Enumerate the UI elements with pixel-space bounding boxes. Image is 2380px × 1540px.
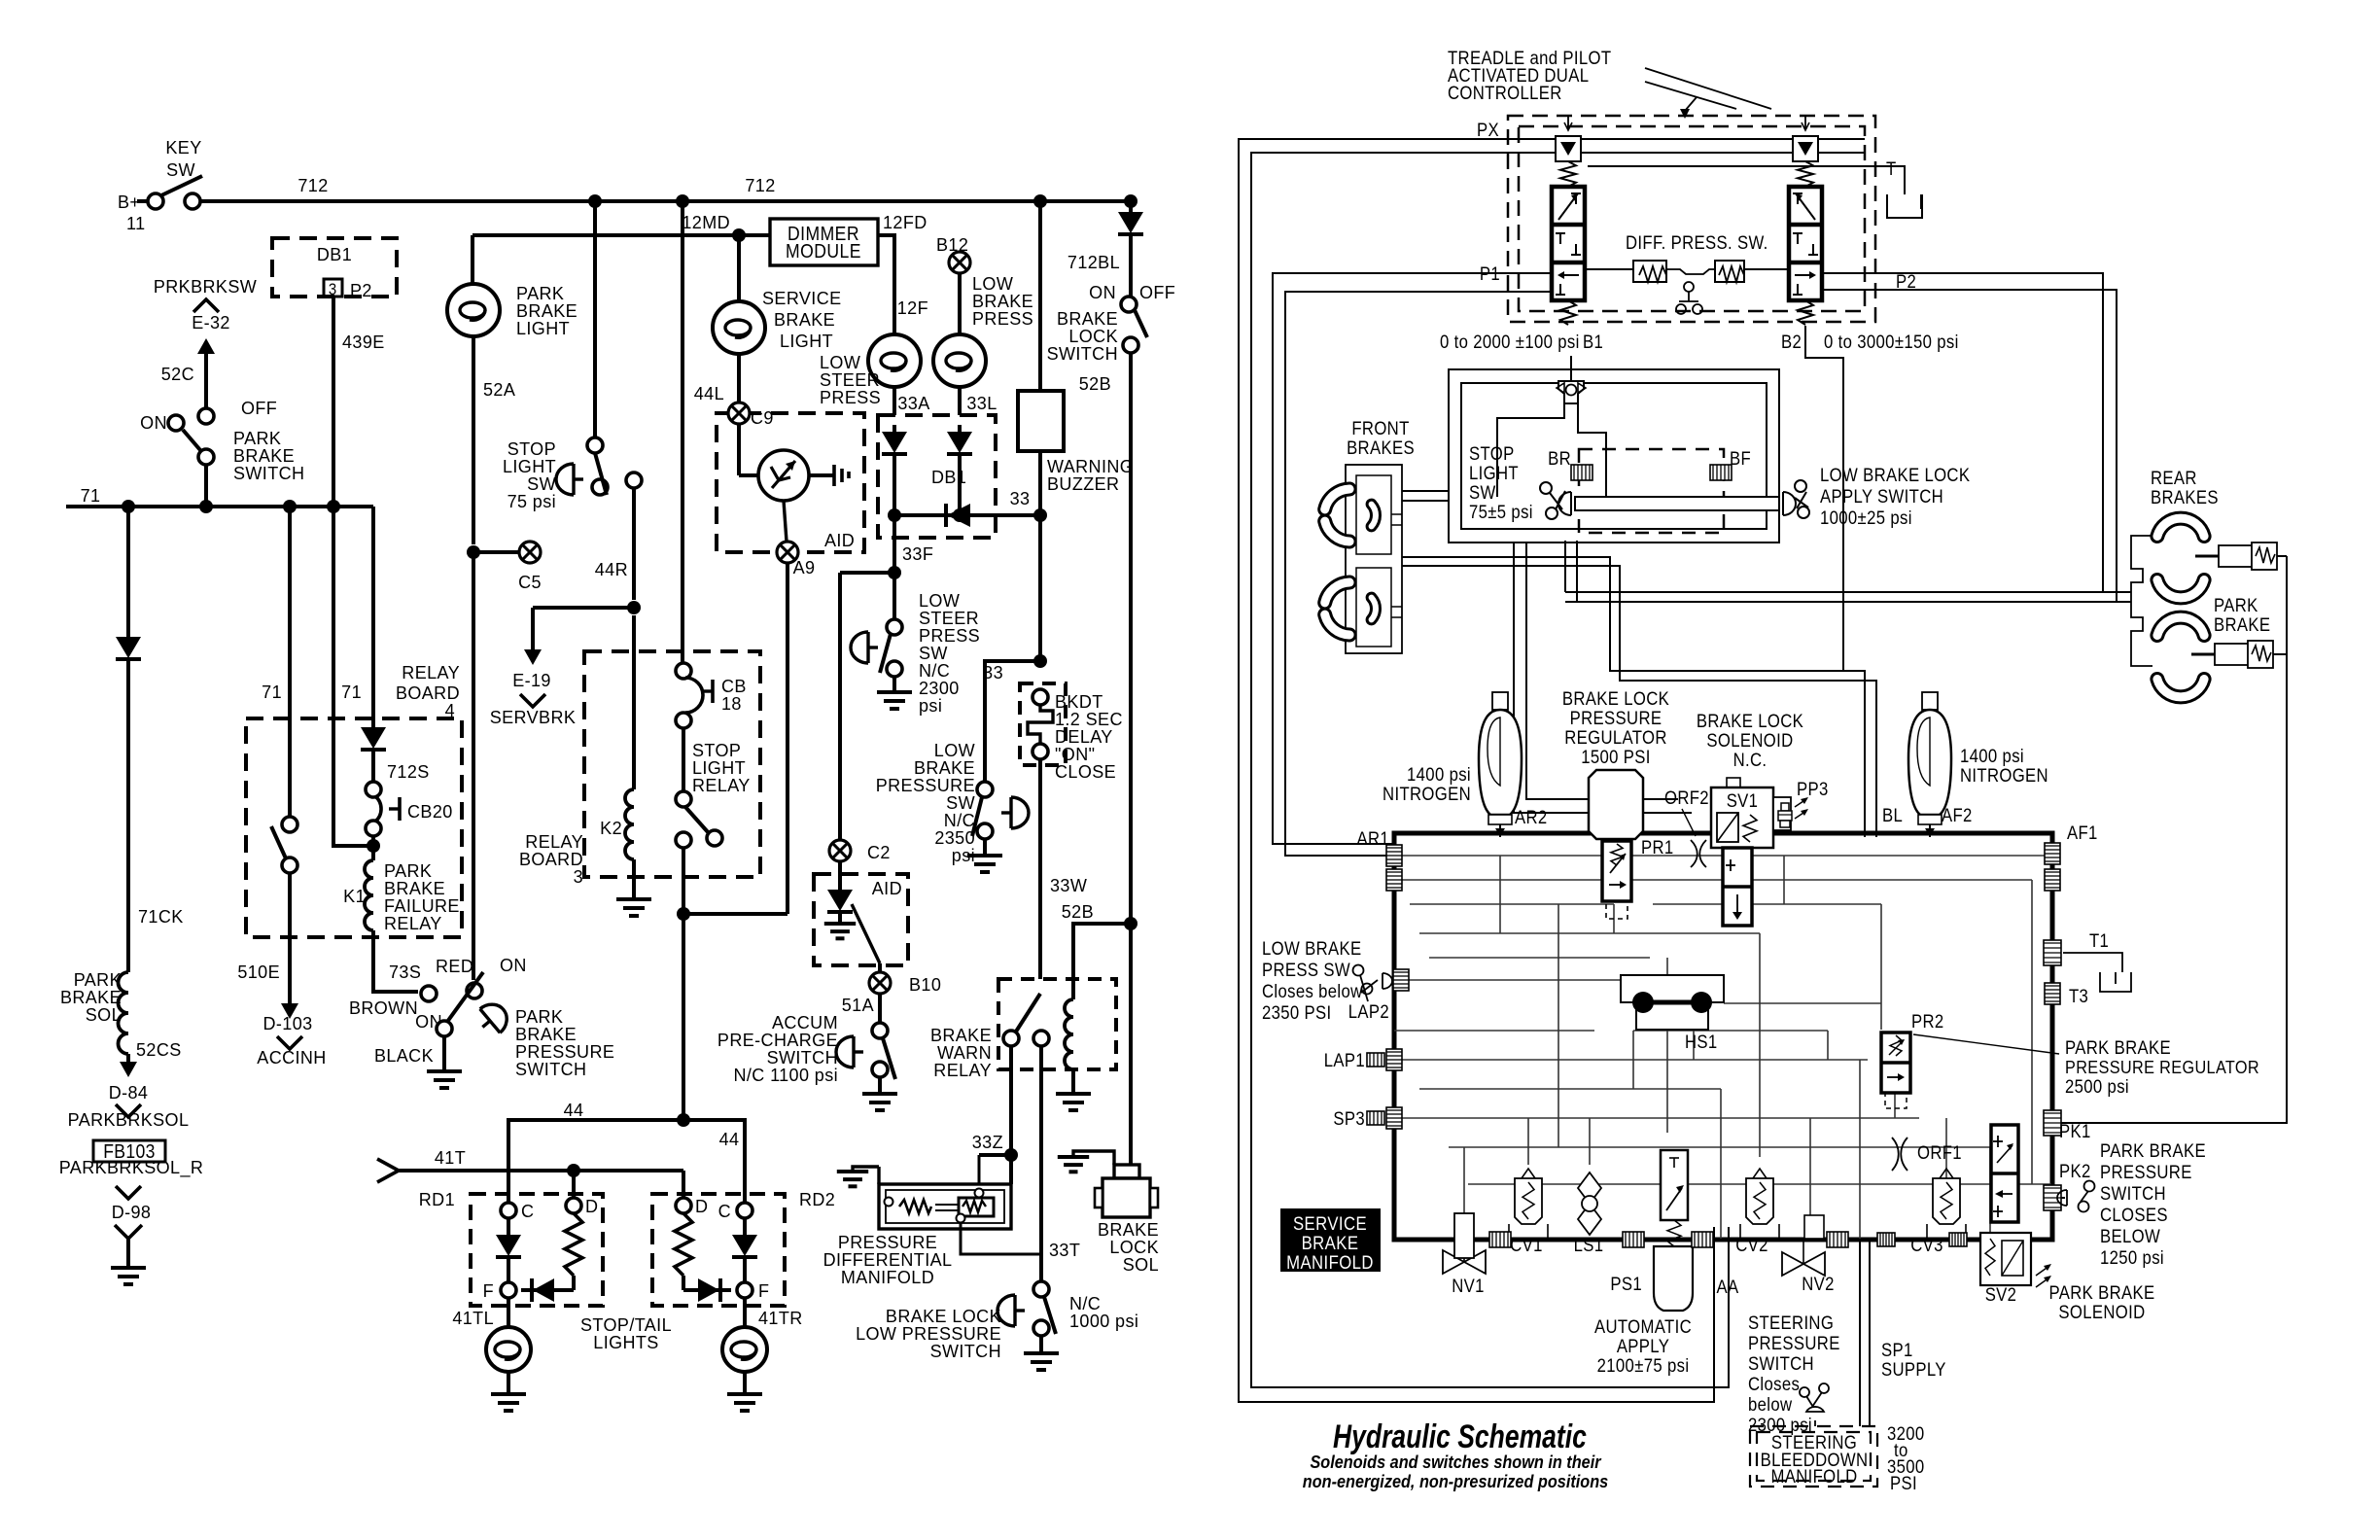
pressure switch PS1 [1654, 1246, 1693, 1311]
svg-text:SV2: SV2 [1985, 1284, 2017, 1305]
svg-text:N/C 1100 psi: N/C 1100 psi [733, 1066, 838, 1085]
svg-text:T: T [1886, 158, 1897, 179]
svg-text:33A: 33A [897, 394, 930, 413]
svg-text:PS1: PS1 [1610, 1274, 1642, 1294]
svg-text:T1: T1 [2089, 930, 2109, 951]
accum pre-charge switch [872, 1023, 888, 1038]
svg-text:RED: RED [436, 957, 473, 976]
svg-text:DIFF. PRESS. SW.: DIFF. PRESS. SW. [1626, 232, 1768, 253]
dimmer module [472, 233, 770, 237]
ground left of manifold [853, 1167, 879, 1172]
rear brake actuator (top) [2219, 545, 2259, 567]
svg-text:SP3: SP3 [1333, 1108, 1365, 1129]
svg-text:ON: ON [500, 956, 527, 975]
rear brakes park line from PK1 [2052, 654, 2287, 1123]
svg-text:BRAKES: BRAKES [1347, 437, 1415, 458]
svg-text:PRESS: PRESS [972, 309, 1033, 329]
svg-text:RD1: RD1 [419, 1190, 455, 1209]
svg-text:41T: 41T [435, 1148, 466, 1168]
svg-text:BR: BR [1548, 448, 1571, 469]
svg-text:71CK: 71CK [138, 907, 184, 927]
svg-text:MODULE: MODULE [786, 240, 861, 262]
svg-text:PRESSURE: PRESSURE [2100, 1162, 2192, 1182]
svg-text:PK1: PK1 [2059, 1121, 2091, 1141]
svg-text:PARKBRKSOL_R: PARKBRKSOL_R [59, 1158, 204, 1178]
svg-text:PRESSURE: PRESSURE [1748, 1333, 1840, 1353]
svg-text:33F: 33F [902, 544, 933, 564]
wire 73S [373, 930, 418, 992]
svg-text:SWITCH: SWITCH [1047, 344, 1118, 364]
svg-text:SV1: SV1 [1727, 790, 1759, 811]
svg-text:AA: AA [1717, 1277, 1739, 1297]
low brake lock apply switch contacts [1795, 480, 1806, 492]
diode 712BL [1129, 201, 1133, 212]
svg-text:LS1: LS1 [1574, 1235, 1604, 1255]
svg-text:BRAKE LOCK: BRAKE LOCK [1562, 688, 1669, 709]
svg-text:BELOW: BELOW [2100, 1226, 2160, 1246]
svg-text:AID: AID [824, 531, 855, 550]
svg-text:B1: B1 [1583, 332, 1603, 352]
svg-text:BUZZER: BUZZER [1047, 474, 1119, 494]
svg-text:D: D [695, 1197, 708, 1216]
svg-text:SW: SW [1469, 482, 1496, 503]
svg-text:1500 PSI: 1500 PSI [1581, 747, 1651, 767]
svg-text:73S: 73S [389, 962, 421, 982]
diode on park brake sol branch [126, 507, 130, 637]
svg-text:C9: C9 [751, 408, 774, 428]
hydraulic pipes: PX / T outer loop [1239, 139, 1714, 1402]
wire to D-84 [126, 1054, 130, 1062]
controller dashed box [1508, 116, 1875, 322]
needle valve NV1 [1443, 1237, 1486, 1274]
svg-text:712: 712 [297, 176, 328, 195]
svg-text:1000±25 psi: 1000±25 psi [1820, 507, 1912, 528]
indicator C2 + AID box 2 [829, 840, 851, 861]
svg-text:51A: 51A [842, 996, 875, 1015]
svg-text:PRKBRKSW: PRKBRKSW [154, 277, 258, 297]
svg-text:0 to 2000 ±100 psi: 0 to 2000 ±100 psi [1440, 332, 1580, 352]
svg-text:2350 PSI: 2350 PSI [1262, 1002, 1332, 1023]
park brake regulator valve (right) [1991, 1125, 2018, 1222]
svg-text:K1: K1 [343, 887, 366, 906]
svg-text:71: 71 [81, 486, 101, 506]
pressure differential manifold box [879, 1184, 1011, 1229]
lamp LOW STEER PRESS [868, 334, 921, 387]
svg-text:STOP: STOP [1469, 443, 1515, 464]
circuit breaker CB18 [681, 201, 684, 663]
wire 44R [626, 472, 642, 488]
brake warn relay [998, 979, 1116, 1069]
svg-text:75±5 psi: 75±5 psi [1469, 502, 1533, 522]
svg-text:CV2: CV2 [1735, 1235, 1768, 1255]
svg-text:RELAY: RELAY [402, 663, 460, 682]
svg-text:CB20: CB20 [407, 802, 453, 822]
svg-text:PARK: PARK [2214, 595, 2258, 615]
svg-text:52B: 52B [1062, 902, 1094, 922]
svg-text:PARK BRAKE: PARK BRAKE [2065, 1037, 2171, 1058]
svg-text:C: C [718, 1202, 731, 1221]
ground under K2 [616, 897, 651, 901]
diode 712S in relay board [371, 507, 375, 727]
svg-text:ACCINH: ACCINH [257, 1048, 326, 1067]
svg-text:CONTROLLER: CONTROLLER [1448, 83, 1562, 103]
svg-text:RELAY: RELAY [692, 776, 751, 795]
svg-text:ON: ON [1089, 283, 1116, 302]
svg-text:B10: B10 [909, 975, 941, 995]
svg-text:C2: C2 [867, 843, 891, 862]
svg-text:PR2: PR2 [1911, 1011, 1944, 1032]
svg-text:2100±75 psi: 2100±75 psi [1597, 1355, 1690, 1376]
T line to tank [1588, 166, 1905, 194]
svg-text:DB1: DB1 [931, 468, 966, 487]
tank symbol T [1887, 194, 1922, 218]
svg-text:1000 psi: 1000 psi [1069, 1312, 1138, 1331]
treadle valve right [1804, 116, 1806, 129]
svg-text:NITROGEN: NITROGEN [1960, 765, 2048, 786]
svg-text:B2: B2 [1781, 332, 1802, 352]
svg-text:PARKBRKSOL: PARKBRKSOL [68, 1110, 190, 1130]
treadle tube [1575, 497, 1779, 510]
svg-text:psi: psi [952, 846, 975, 865]
svg-text:E-19: E-19 [512, 671, 551, 690]
svg-text:D-103: D-103 [262, 1014, 312, 1033]
svg-text:SERVBRK: SERVBRK [490, 708, 577, 727]
svg-text:D: D [585, 1197, 598, 1216]
svg-text:AR2: AR2 [1515, 807, 1548, 827]
stop light relay contacts [682, 728, 685, 791]
controller internal pilot lines [1514, 138, 1865, 140]
svg-text:2500 psi: 2500 psi [2065, 1076, 2129, 1097]
svg-text:LOW BRAKE: LOW BRAKE [1262, 938, 1361, 959]
load sense LS1 [1578, 1172, 1601, 1235]
svg-text:712S: 712S [387, 762, 430, 782]
PR1 valve in manifold [1602, 841, 1631, 901]
svg-text:CLOSE: CLOSE [1055, 762, 1116, 782]
svg-text:BL: BL [1882, 805, 1903, 825]
park brake pressure switch (hydraulic) [2057, 1190, 2067, 1206]
svg-text:SERVICE: SERVICE [762, 289, 842, 308]
svg-text:PARK BRAKE: PARK BRAKE [2048, 1282, 2154, 1303]
SV1 valve in manifold [1723, 848, 1752, 926]
svg-text:LIGHT: LIGHT [516, 319, 570, 338]
ground (park brake sol return) [115, 1225, 142, 1239]
svg-text:OFF: OFF [1139, 283, 1175, 302]
relay board 3 box STOP LIGHT RELAY [584, 651, 760, 877]
svg-text:P2: P2 [1896, 271, 1916, 292]
52B junction feeding relay coil and brake lock sol [1124, 917, 1137, 930]
svg-text:CV3: CV3 [1910, 1235, 1943, 1255]
svg-text:71: 71 [262, 682, 282, 702]
svg-text:41TL: 41TL [452, 1309, 494, 1328]
lamp SERVICE BRAKE LIGHT [737, 235, 741, 301]
svg-text:33Z: 33Z [972, 1133, 1003, 1152]
svg-text:SWITCH: SWITCH [2100, 1183, 2166, 1204]
svg-text:12FD: 12FD [883, 213, 927, 232]
AID box (dimmer aid) [717, 413, 864, 552]
svg-text:F: F [483, 1281, 494, 1301]
lamp PARK BRAKE LIGHT [471, 235, 474, 284]
svg-text:A9: A9 [793, 558, 816, 577]
svg-text:75 psi: 75 psi [507, 492, 556, 511]
svg-text:LOW BRAKE LOCK: LOW BRAKE LOCK [1820, 465, 1970, 485]
svg-text:CLOSES: CLOSES [2100, 1205, 2168, 1225]
svg-text:52B: 52B [1079, 374, 1111, 394]
svg-text:12F: 12F [897, 298, 928, 318]
svg-text:LAP2: LAP2 [1348, 1001, 1389, 1022]
svg-text:LIGHT: LIGHT [780, 332, 833, 351]
svg-text:B+: B+ [118, 192, 140, 212]
svg-text:AR1: AR1 [1356, 828, 1389, 849]
svg-text:SWITCH: SWITCH [930, 1342, 1001, 1361]
svg-text:SWITCH: SWITCH [233, 464, 304, 483]
brake lock solenoid [1114, 1165, 1139, 1178]
wire 33Z + pressure differential manifold [1009, 1046, 1013, 1184]
svg-text:BRAKES: BRAKES [2151, 487, 2219, 507]
svg-text:BF: BF [1730, 448, 1751, 469]
pipes service line to BL port [1402, 557, 1865, 837]
svg-text:BRAKE LOCK: BRAKE LOCK [1697, 711, 1803, 731]
svg-text:HS1: HS1 [1685, 1032, 1718, 1052]
svg-text:D-98: D-98 [112, 1203, 152, 1222]
steering bleeddown manifold [1750, 1426, 1877, 1487]
svg-text:DB1: DB1 [317, 245, 352, 264]
svg-text:1250 psi: 1250 psi [2100, 1247, 2164, 1268]
circuit breaker CB20 [366, 782, 381, 797]
pipes P1 loop to manifold [1273, 273, 1554, 844]
svg-text:CV1: CV1 [1510, 1235, 1543, 1255]
svg-text:LIGHTS: LIGHTS [593, 1333, 658, 1352]
svg-text:PP3: PP3 [1797, 779, 1829, 799]
svg-text:NITROGEN: NITROGEN [1382, 784, 1471, 804]
relay board 4 box [246, 718, 462, 937]
svg-text:44L: 44L [694, 384, 724, 403]
svg-text:ORF2: ORF2 [1664, 787, 1709, 808]
PK2 switch line [2052, 1197, 2065, 1199]
low brake pressure switch chain 33 [1033, 654, 1047, 668]
svg-text:Closes below: Closes below [1262, 981, 1363, 1001]
svg-text:MANIFOLD: MANIFOLD [1286, 1252, 1374, 1273]
pipes P2 to rear brakes [1820, 273, 2131, 592]
svg-text:12MD: 12MD [682, 213, 730, 232]
svg-text:APPLY: APPLY [1617, 1336, 1669, 1356]
svg-text:N.C.: N.C. [1733, 750, 1767, 770]
manifold port fittings right edge [2045, 843, 2060, 864]
svg-text:C5: C5 [518, 573, 542, 592]
svg-text:Closes: Closes [1748, 1374, 1800, 1394]
svg-text:PX: PX [1477, 120, 1499, 140]
svg-text:SOLENOID: SOLENOID [2058, 1302, 2145, 1322]
wire to E-19 SERVBRK [531, 608, 535, 649]
svg-text:PR1: PR1 [1641, 837, 1674, 857]
port fittings bottom edge [1489, 1232, 1511, 1247]
BR / BF block dashed [1579, 449, 1724, 533]
brake lock low pressure switch [1033, 1281, 1049, 1297]
svg-text:non-energized, non-presurized: non-energized, non-presurized positions [1303, 1471, 1609, 1491]
svg-text:ON: ON [140, 413, 167, 433]
svg-text:PRESS: PRESS [820, 388, 881, 407]
svg-text:AF2: AF2 [1942, 805, 1973, 825]
svg-text:BLACK: BLACK [374, 1046, 434, 1066]
svg-text:REGULATOR: REGULATOR [1564, 727, 1667, 748]
indicator B10 [878, 963, 882, 972]
svg-text:APPLY SWITCH: APPLY SWITCH [1820, 486, 1943, 507]
svg-text:712: 712 [745, 176, 775, 195]
svg-text:SOL: SOL [86, 1005, 122, 1025]
manifold internal gray piping web [1394, 855, 2051, 857]
svg-text:SOL: SOL [1123, 1255, 1159, 1275]
wire 52A / park brake light [593, 201, 597, 437]
svg-text:below: below [1748, 1394, 1792, 1415]
svg-text:52A: 52A [483, 380, 516, 400]
svg-text:SWITCH: SWITCH [515, 1060, 586, 1079]
svg-text:BROWN: BROWN [349, 998, 418, 1018]
svg-text:712BL: 712BL [1067, 253, 1120, 272]
pipes B2 rectangle runs [1449, 369, 1779, 542]
svg-text:FRONT: FRONT [1351, 418, 1409, 438]
svg-text:4: 4 [445, 701, 455, 720]
svg-text:RELAY: RELAY [384, 914, 442, 933]
svg-text:REAR: REAR [2151, 468, 2197, 488]
accumulator left [1492, 692, 1508, 710]
svg-text:F: F [758, 1281, 769, 1301]
svg-text:439E: 439E [342, 332, 385, 352]
svg-text:RD2: RD2 [799, 1190, 835, 1209]
svg-text:AID: AID [872, 879, 902, 898]
svg-text:AF1: AF1 [2067, 822, 2098, 843]
svg-text:52C: 52C [161, 365, 194, 384]
timer BKDT delay [1020, 683, 1066, 765]
svg-text:E-32: E-32 [192, 313, 230, 332]
svg-text:71: 71 [341, 682, 362, 702]
pipes B2 drop from right valve [1805, 326, 1843, 671]
svg-text:C: C [521, 1202, 534, 1221]
svg-text:LIGHT: LIGHT [1469, 463, 1519, 483]
svg-text:44R: 44R [595, 560, 628, 579]
connector DB1 (top) [272, 238, 397, 297]
svg-text:PK2: PK2 [2059, 1161, 2091, 1181]
svg-text:1400 psi: 1400 psi [1960, 746, 2024, 766]
stop light sw contacts (scissor) [1540, 482, 1552, 494]
svg-text:BRAKE: BRAKE [774, 310, 835, 330]
manifold port fittings left edge [1386, 845, 1402, 866]
SERVICE BRAKE MANIFOLD badge [1280, 1208, 1381, 1272]
needle valve NV2 [1782, 1239, 1825, 1276]
svg-text:PSI: PSI [1890, 1473, 1917, 1493]
svg-text:LAP1: LAP1 [1324, 1050, 1365, 1070]
svg-text:0 to 3000±150 psi: 0 to 3000±150 psi [1824, 332, 1959, 352]
svg-text:OFF: OFF [241, 399, 277, 418]
svg-text:44: 44 [564, 1101, 584, 1120]
svg-text:SWITCH: SWITCH [1748, 1353, 1814, 1374]
svg-text:T3: T3 [2069, 986, 2088, 1006]
svg-text:3: 3 [329, 281, 336, 298]
svg-text:NV1: NV1 [1452, 1276, 1485, 1296]
solenoid valve SV2 [1980, 1233, 2031, 1285]
svg-text:Solenoids and switches shown i: Solenoids and switches shown in their [1310, 1452, 1601, 1472]
HS1 shuttle [1621, 975, 1724, 1030]
svg-text:PRESSURE REGULATOR: PRESSURE REGULATOR [2065, 1057, 2259, 1077]
svg-text:SP1: SP1 [1881, 1340, 1913, 1360]
LAP1 / SP3 bolts [1367, 1053, 1384, 1067]
wire 52C to park brake switch [204, 362, 208, 408]
svg-text:33T: 33T [1049, 1241, 1080, 1260]
treadle valve left [1567, 116, 1569, 129]
diode block DB1 (lower) [878, 415, 996, 538]
check valve CV3 [1933, 1178, 1960, 1224]
warning buzzer [1038, 201, 1042, 391]
svg-text:MANIFOLD: MANIFOLD [841, 1268, 934, 1287]
svg-text:SUPPLY: SUPPLY [1881, 1359, 1946, 1380]
svg-text:SERVICE: SERVICE [1293, 1213, 1367, 1234]
svg-text:33W: 33W [1050, 876, 1088, 895]
svg-text:PRESS SW: PRESS SW [1262, 960, 1350, 980]
svg-text:MANIFOLD: MANIFOLD [1770, 1466, 1857, 1487]
svg-text:Hydraulic Schematic: Hydraulic Schematic [1333, 1418, 1587, 1455]
svg-text:psi: psi [919, 696, 942, 716]
svg-text:3: 3 [574, 867, 583, 887]
svg-text:BRAKE: BRAKE [1302, 1233, 1359, 1253]
svg-text:BRAKE: BRAKE [2214, 614, 2270, 635]
check valve CV2 [1746, 1178, 1773, 1224]
svg-text:P2: P2 [350, 281, 372, 300]
relay board 4 left switch [288, 507, 292, 817]
svg-text:AUTOMATIC: AUTOMATIC [1594, 1316, 1692, 1337]
accumulator right [1922, 692, 1938, 710]
svg-text:ORF1: ORF1 [1917, 1142, 1962, 1163]
svg-text:RELAY: RELAY [933, 1061, 992, 1080]
svg-text:P1: P1 [1480, 263, 1500, 284]
svg-text:NV2: NV2 [1802, 1274, 1835, 1294]
svg-text:510E: 510E [237, 962, 280, 982]
svg-text:33: 33 [1010, 489, 1031, 508]
svg-text:KEY: KEY [165, 138, 201, 157]
pipes B1 shuttle connections [1497, 403, 1564, 497]
svg-text:1400 psi: 1400 psi [1407, 764, 1471, 785]
service brake manifold outline [1394, 833, 2052, 1240]
svg-text:18: 18 [721, 694, 742, 714]
svg-text:D-84: D-84 [109, 1083, 149, 1102]
svg-text:33L: 33L [966, 394, 997, 413]
check valve CV1 [1515, 1178, 1542, 1224]
svg-text:K2: K2 [600, 819, 622, 838]
svg-text:52CS: 52CS [136, 1040, 182, 1060]
svg-text:44: 44 [719, 1130, 740, 1149]
svg-text:PARK BRAKE: PARK BRAKE [2100, 1140, 2206, 1161]
svg-text:SOLENOID: SOLENOID [1706, 730, 1793, 751]
svg-text:11: 11 [126, 214, 146, 233]
gauge symbol [758, 450, 809, 501]
svg-text:41TR: 41TR [758, 1309, 803, 1328]
svg-text:PRESSURE: PRESSURE [1570, 708, 1662, 728]
svg-text:STEERING: STEERING [1748, 1312, 1834, 1333]
svg-text:SW: SW [166, 160, 195, 180]
